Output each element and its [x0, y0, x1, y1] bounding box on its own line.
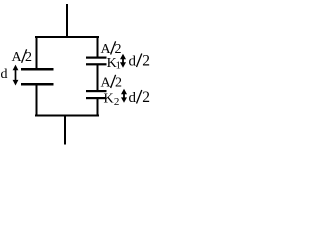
svg-text:2: 2 — [115, 76, 122, 91]
svg-text:A: A — [12, 50, 23, 65]
wire: right branch middle segment between K1 and K2 — [97, 65, 99, 91]
svg-text:K: K — [104, 91, 114, 106]
label d/2 (capacitor K1 gap) — [129, 53, 151, 70]
wire: top horizontal bus — [35, 36, 99, 38]
label A/2 (capacitor K2 area) — [101, 75, 123, 91]
dimension arrow d/2 (capacitor K1, double-headed vertical) — [120, 54, 126, 68]
svg-text:d: d — [129, 54, 137, 70]
svg-text:d: d — [129, 90, 137, 106]
capacitor K1 (right top, A/2, gap d/2) top plate — [86, 57, 107, 59]
svg-text:2: 2 — [115, 42, 122, 57]
capacitor C1 (left, A/2, gap d) bottom plate — [21, 83, 54, 86]
svg-text:2: 2 — [114, 96, 120, 108]
wire: left branch upper segment — [36, 36, 38, 69]
wire: bottom horizontal bus — [35, 115, 99, 117]
svg-text:A: A — [101, 42, 112, 57]
svg-text:2: 2 — [142, 53, 150, 70]
label d/2 (capacitor K2 gap) — [129, 89, 151, 106]
wire: left branch lower segment — [36, 85, 38, 116]
svg-text:A: A — [101, 76, 112, 91]
wire: right branch lower segment — [97, 99, 99, 116]
capacitor K2 (right bottom, A/2, gap d/2) bottom plate — [86, 97, 107, 99]
dimension arrow d (left capacitor, double-headed vertical) — [13, 65, 19, 86]
svg-text:d: d — [1, 67, 8, 82]
capacitor C1 (left, A/2, gap d) top plate — [21, 68, 54, 71]
capacitor K2 (right bottom, A/2, gap d/2) top plate — [86, 90, 107, 92]
dimension arrow d/2 (capacitor K2, double-headed vertical) — [121, 89, 127, 103]
wire: right branch upper segment — [97, 36, 99, 57]
svg-text:2: 2 — [142, 89, 150, 106]
svg-text:1: 1 — [116, 60, 121, 71]
label A/2 (left capacitor area) — [12, 49, 33, 65]
label A/2 (capacitor K1 area) — [101, 41, 122, 57]
capacitor K1 (right top, A/2, gap d/2) bottom plate — [86, 63, 107, 65]
wire: top terminal stub — [66, 4, 68, 37]
svg-text:2: 2 — [25, 50, 32, 65]
wire: bottom terminal stub — [64, 116, 66, 145]
